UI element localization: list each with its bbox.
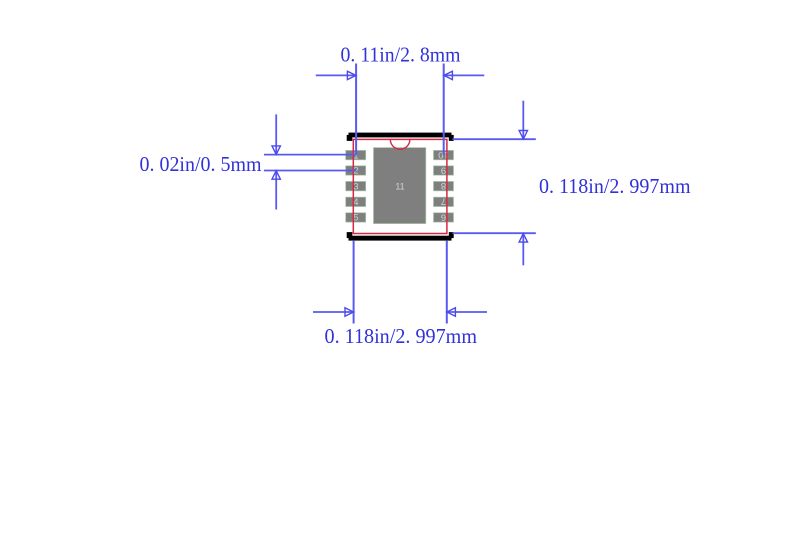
- bottom dimension extension line right: [446, 241, 448, 324]
- pad 8 (right, pin 8): [434, 181, 454, 190]
- right dimension extension line top: [453, 138, 536, 140]
- svg-text:8: 8: [441, 180, 446, 191]
- pad 2 (left, pin 2): [346, 166, 366, 175]
- top dimension arrow right (points left): [444, 71, 453, 79]
- bottom dimension line left: [313, 311, 354, 313]
- svg-text:0. 11in/2. 8mm: 0. 11in/2. 8mm: [341, 44, 461, 66]
- svg-text:11: 11: [395, 181, 404, 191]
- pad 11 (center thermal pad): [374, 148, 426, 224]
- bottom dimension extension line left: [353, 241, 355, 324]
- svg-text:6: 6: [441, 211, 446, 222]
- left dimension arrow upper (points down): [272, 146, 280, 155]
- left dimension vertical line upper: [275, 114, 277, 154]
- right dimension vertical line upper: [522, 101, 524, 139]
- bottom dimension arrow left (points right): [345, 308, 354, 316]
- bottom dimension line right: [447, 311, 487, 313]
- left dimension vertical line lower: [275, 171, 277, 210]
- pad 10 (right, pin 10): [434, 150, 454, 159]
- top dimension line right: [444, 74, 484, 76]
- pad 4 (left, pin 4): [346, 197, 366, 206]
- silkscreen top-left tick: [347, 135, 353, 141]
- bottom dimension arrow right (points left): [447, 308, 456, 316]
- right dimension extension line bottom: [453, 232, 536, 234]
- top dimension arrow left (points right): [347, 71, 356, 79]
- silkscreen top-right tick: [449, 135, 454, 141]
- svg-text:9: 9: [441, 164, 446, 175]
- silkscreen bottom bar: [349, 236, 452, 241]
- silkscreen top bar: [349, 133, 452, 138]
- pad 3 (left, pin 3): [346, 181, 366, 190]
- pad 7 (right, pin 7): [434, 197, 454, 206]
- package outline (red courtyard rectangle): [353, 139, 447, 233]
- top dimension line left: [316, 74, 356, 76]
- right dimension arrow upper (points down): [519, 131, 527, 140]
- left dimension extension line to pad 1: [264, 154, 356, 156]
- pad 5 (left, pin 5): [346, 213, 366, 222]
- pin-1 indicator arc: [390, 139, 410, 149]
- svg-text:7: 7: [441, 196, 446, 207]
- silkscreen bottom-right tick: [449, 232, 454, 238]
- pad 6 (right, pin 6): [434, 213, 454, 222]
- pad 1 (left, pin 1): [346, 150, 366, 159]
- left dimension extension line to pad 2: [264, 170, 356, 172]
- top dimension extension line right: [443, 64, 445, 156]
- svg-text:0. 02in/0. 5mm: 0. 02in/0. 5mm: [140, 154, 262, 176]
- pad 9 (right, pin 9): [434, 166, 454, 175]
- svg-text:0. 118in/2. 997mm: 0. 118in/2. 997mm: [539, 176, 691, 198]
- right dimension arrow lower (points up): [519, 234, 527, 243]
- left dimension arrow lower (points up): [272, 171, 280, 180]
- top dimension extension line left: [355, 64, 357, 155]
- silkscreen bottom-left tick: [347, 232, 353, 238]
- svg-text:0. 118in/2. 997mm: 0. 118in/2. 997mm: [325, 326, 478, 348]
- right dimension vertical line lower: [522, 234, 524, 266]
